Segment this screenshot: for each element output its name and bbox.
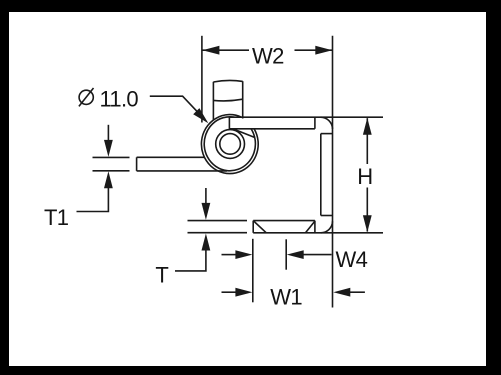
bottom bend tangent edge xyxy=(314,221,316,233)
top flange top face xyxy=(229,116,383,118)
diameter leader line xyxy=(150,96,205,120)
T1 down arrowhead xyxy=(104,140,113,157)
bottom bend inner tangent edge xyxy=(321,215,333,217)
W2 left extension line xyxy=(201,36,203,123)
T lower arrow stem and leader xyxy=(175,249,206,271)
W1 right arrowhead xyxy=(333,288,350,297)
tab top face xyxy=(137,156,205,158)
svg-text:H: H xyxy=(357,164,372,189)
svg-text:W1: W1 xyxy=(270,284,302,309)
T1 top extension line xyxy=(93,156,130,158)
W1 dimension line left segment xyxy=(222,291,238,293)
cylinder boss left edge xyxy=(212,82,214,120)
bottom flange right chamfer xyxy=(306,221,315,233)
H top arrowhead xyxy=(363,118,372,135)
W1 dimension line right segment xyxy=(350,291,365,293)
T1 upper arrow stem xyxy=(107,125,109,142)
top bend tangent edge xyxy=(314,117,316,129)
tab left end edge xyxy=(136,157,138,171)
W1 left arrowhead xyxy=(235,288,252,297)
cylinder boss right edge xyxy=(242,81,244,118)
W2 dimension line left segment xyxy=(202,49,249,51)
H dimension line upper segment xyxy=(366,118,368,164)
bottom flange top face xyxy=(253,220,315,222)
leader arrowhead xyxy=(193,108,208,123)
svg-text:W2: W2 xyxy=(252,43,284,68)
W4 dimension line right segment xyxy=(303,254,332,256)
T up arrowhead xyxy=(202,234,211,251)
W4 extension line xyxy=(285,239,287,269)
H dimension line lower segment xyxy=(366,188,368,232)
hub bore circle xyxy=(220,134,241,155)
svg-text:T: T xyxy=(155,262,168,287)
top flange left end edge xyxy=(228,117,230,129)
W4 dimension line left segment xyxy=(222,254,237,256)
T bottom extension line xyxy=(188,232,248,234)
T upper arrow stem xyxy=(205,188,207,205)
right wall inner face xyxy=(320,134,322,216)
T top extension line xyxy=(188,220,248,222)
W2 right arrowhead xyxy=(315,46,332,55)
W4 right arrowhead xyxy=(287,250,304,259)
T1 up arrowhead xyxy=(104,171,113,188)
cylinder boss seam line xyxy=(213,99,242,101)
cylinder boss top edge xyxy=(213,80,242,82)
ring outer circle xyxy=(201,115,258,174)
ring inner rim circle xyxy=(204,117,255,171)
top corner outer fillet arc xyxy=(321,117,333,129)
T down arrowhead xyxy=(202,203,211,220)
T1 bottom extension line xyxy=(93,170,130,172)
W2 dimension line right segment xyxy=(295,49,333,51)
svg-text:W4: W4 xyxy=(336,247,368,272)
right wall outer face and W2/W4/W1 extension line xyxy=(332,36,334,308)
W1 left extension line xyxy=(252,239,254,302)
diameter symbol circle xyxy=(79,90,93,104)
tab bottom face xyxy=(137,170,227,172)
bottom flange left end edge xyxy=(252,221,254,233)
hub outer circle xyxy=(216,130,245,159)
bottom corner outer fillet arc xyxy=(321,221,333,233)
boss cone tangent line xyxy=(234,129,254,137)
svg-text:T1: T1 xyxy=(44,205,69,230)
H bottom arrowhead xyxy=(363,215,372,232)
bottom flange left chamfer xyxy=(253,221,266,233)
bottom flange bottom face xyxy=(253,232,383,234)
W2 left arrowhead xyxy=(202,46,219,55)
diameter symbol slash xyxy=(79,88,94,106)
W4 left arrowhead xyxy=(235,250,252,259)
top bend inner tangent edge xyxy=(321,133,333,135)
svg-text:11.0: 11.0 xyxy=(100,87,139,112)
top flange bottom face xyxy=(229,128,315,130)
T1 lower arrow stem and leader xyxy=(77,187,109,212)
